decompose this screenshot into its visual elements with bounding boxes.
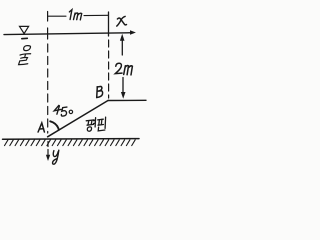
label 평판 (flat plate)	[86, 117, 105, 131]
dimension 2m lower arrow	[122, 78, 124, 94]
inclined plate A-B	[48, 100, 109, 136]
y axis label	[53, 150, 59, 164]
left dashed line down to A	[47, 44, 49, 133]
x-axis arrowhead	[130, 30, 136, 35]
B level line	[108, 99, 146, 101]
ground hatching	[5, 140, 136, 146]
label 1m	[69, 10, 81, 20]
water symbol triangle	[20, 26, 29, 33]
label A	[38, 123, 44, 132]
left vertical extension line: tick across water line	[47, 28, 49, 39]
dimension 2m upper arrow	[121, 40, 123, 55]
label 45deg	[54, 105, 72, 116]
right vertical extension line (solid tick + dashed)	[108, 12, 110, 36]
dimension 1m line	[48, 14, 108, 17]
label 물 (water)	[19, 46, 32, 65]
water symbol dash	[22, 37, 28, 39]
water surface / x-axis line	[4, 33, 133, 35]
ground line	[3, 138, 140, 141]
y-axis below ground (dashes + arrow)	[47, 142, 49, 155]
dimension 1m left tick	[47, 12, 49, 22]
x axis label	[117, 16, 127, 26]
angle arc	[50, 121, 59, 130]
label B	[97, 86, 103, 97]
label 2m	[115, 63, 132, 75]
